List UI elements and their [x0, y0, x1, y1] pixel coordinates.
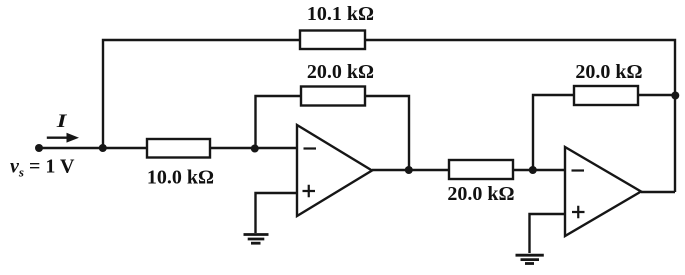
wire: U1 non-inverting input run to ground stem: [256, 193, 298, 233]
svg-text:20.0 kΩ: 20.0 kΩ: [307, 61, 374, 83]
op-amp U2: [565, 147, 641, 236]
ground (U2 non-inverting input): [516, 255, 544, 263]
op-amp U1: [297, 125, 372, 216]
svg-text:vs = 1 V: vs = 1 V: [10, 156, 75, 180]
ground (U1 non-inverting input): [244, 235, 269, 244]
resistor 10.0 kΩ (input): [147, 139, 210, 158]
resistor 20.0 kΩ (U2 feedback): [574, 86, 638, 105]
wire: U1 feedback loop (node B up, across y=96, down to U1 output): [256, 96, 410, 170]
node: source terminal dot: [35, 144, 43, 152]
resistor 20.0 kΩ (U1 feedback): [301, 87, 365, 106]
node: U2 feedback/output junction dot: [671, 92, 679, 100]
wire: U2 output stub, y=192: [641, 191, 675, 193]
wire: U1 output net to U2 inverting input, y=170: [372, 169, 565, 171]
svg-text:10.1 kΩ: 10.1 kΩ: [307, 3, 374, 25]
node C: U2 inverting-input junction dot: [529, 166, 537, 174]
svg-text:20.0 kΩ: 20.0 kΩ: [575, 61, 642, 83]
svg-text:I: I: [56, 110, 68, 132]
wire: input net from source terminal to op-amp U1 inverting input, y=148: [39, 147, 297, 149]
node B: U1 inverting-input junction dot: [251, 145, 259, 153]
wire: U2 non-inverting input run to ground stem: [530, 214, 566, 253]
wire: outer loop - left vertical, top net y=40, right vertical to output: [103, 40, 675, 192]
svg-text:20.0 kΩ: 20.0 kΩ: [447, 183, 514, 205]
resistor 10.1 kΩ (overall feedback): [300, 31, 365, 50]
svg-text:10.0 kΩ: 10.0 kΩ: [147, 167, 214, 189]
node: U1 output junction dot: [405, 166, 413, 174]
node A: input junction dot: [99, 144, 107, 152]
resistor 20.0 kΩ (interstage series): [449, 160, 513, 179]
wire: U2 feedback loop (node C up, across y=95 to output bus): [533, 95, 675, 170]
current arrow I: [47, 133, 79, 143]
